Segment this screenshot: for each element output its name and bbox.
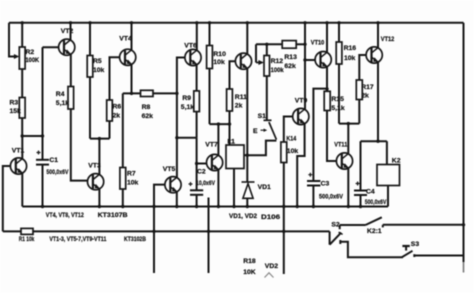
wire R12 bottom to S1 (266, 76, 268, 120)
svg-text:R18: R18 (243, 258, 256, 265)
resistor R9 5,1k (194, 91, 200, 112)
svg-text:500,0x6V: 500,0x6V (46, 169, 68, 176)
svg-text:2k: 2k (235, 103, 243, 110)
capacitor C1 plus (37, 151, 41, 155)
wire VT6 base vertical long (177, 58, 185, 138)
wire throw2 step to S3 (340, 242, 403, 257)
wire VT6 collector up (196, 23, 198, 51)
svg-text:VT6: VT6 (184, 43, 197, 50)
wire bottom rail A (22, 206, 388, 208)
svg-text:R17: R17 (361, 84, 374, 91)
svg-text:K2:1: K2:1 (367, 228, 382, 235)
svg-text:K2: K2 (392, 158, 401, 165)
junction dots vertical305 (303, 43, 306, 46)
svg-text:5,1k: 5,1k (331, 105, 344, 112)
svg-text:KT3102B: KT3102B (124, 236, 146, 243)
svg-text:VT10: VT10 (311, 40, 325, 47)
resistor R16 10k (336, 42, 342, 64)
svg-text:D106: D106 (261, 214, 280, 221)
svg-text:VT9: VT9 (295, 98, 308, 105)
svg-text:2k: 2k (113, 112, 121, 119)
svg-text:KT3107B: KT3107B (98, 212, 128, 219)
wire S1 bottom staircase (247, 141, 276, 156)
svg-text:R10: R10 (213, 51, 226, 58)
svg-text:k1: k1 (227, 139, 235, 146)
capacitor C2 plus (189, 182, 193, 186)
svg-text:S2: S2 (331, 222, 340, 229)
junction dot right rail K21 (462, 223, 465, 226)
wire K21 to right rail (383, 224, 464, 226)
wire VT6 emitter to R9 (196, 65, 198, 91)
svg-text:R4: R4 (56, 91, 65, 98)
wire R7 top lead (122, 93, 124, 167)
resistor R17 2k (356, 80, 362, 100)
junction dots node136 (21, 134, 24, 137)
wire throw1 to K21 lever (340, 224, 366, 226)
transistor VT8 unlabeled (235, 53, 251, 69)
wire bottom rail B left (3, 230, 21, 232)
resistor R10 10k (207, 46, 213, 69)
wire node138 horizontal (90, 138, 110, 140)
svg-text:R3: R3 (10, 100, 19, 107)
svg-text:E: E (253, 128, 258, 135)
wire K1 top lead (229, 124, 231, 145)
wire S3 to right rail (414, 255, 463, 257)
wire VT12 base to R17 (359, 55, 366, 80)
wire VT12 collector up (377, 23, 379, 48)
capacitor C4 plus (356, 182, 360, 186)
wire VT10 collector up (326, 23, 328, 53)
relay K2 coil box (377, 165, 400, 186)
wire bottom rail B main (33, 230, 330, 232)
svg-text:R6: R6 (113, 104, 122, 111)
svg-text:VT3: VT3 (88, 163, 101, 170)
wire node44 horizontal to R13 (256, 43, 282, 45)
wire VT8 base to R11 top (230, 61, 236, 89)
wire S3 plunger cap (402, 245, 409, 247)
wire R2 to R3 (21, 69, 23, 98)
wire R15 bottom to VT11 base (327, 111, 337, 162)
wire VT12 emitter down (377, 62, 379, 141)
wire node123 horizontal (339, 123, 359, 125)
wire R6 bottom (109, 121, 111, 139)
wire VT5 top lead (176, 138, 178, 178)
resistor R1 10k horizontal in rail (21, 228, 33, 234)
resistor R4 5,1k (68, 87, 74, 110)
junction dot R15 C3 tap (325, 87, 328, 90)
svg-text:62k: 62k (284, 63, 296, 70)
wire VT1 collector (21, 136, 23, 159)
wire VT4 base to R6 top (110, 57, 120, 100)
capacitor C4 plates (354, 191, 367, 196)
svg-text:15k: 15k (10, 108, 22, 115)
wire stub below rails mid (208, 198, 210, 274)
junction dot C2 tap (195, 162, 198, 165)
wire VD1 bottom to rail (246, 198, 248, 206)
wire S2 lever (330, 233, 342, 245)
svg-text:10k: 10k (213, 59, 225, 66)
wire VT11 collector up (347, 124, 349, 155)
wire R5 top (89, 23, 91, 56)
resistor R11 2k (227, 89, 233, 111)
wire R16 top (338, 23, 340, 42)
wire VT7 base horizontal (197, 163, 208, 165)
svg-text:R2: R2 (26, 49, 35, 56)
wire VT2 base vertical down through node to C1 (42, 47, 44, 160)
junction dots top rail (21, 21, 24, 24)
svg-text:10K: 10K (243, 269, 256, 276)
wire down to VT7 base level (196, 138, 198, 164)
switch S1 actuate arrow E (261, 129, 265, 131)
transistor VT12 (366, 47, 382, 63)
potentiometer R12 wiper arrow wire (256, 62, 259, 64)
potentiometer R12 wiper arrow (258, 60, 264, 65)
wire VT5 base to rail stub down (154, 185, 165, 273)
svg-text:10k: 10k (344, 55, 356, 62)
wire node136 horizontal (22, 135, 42, 137)
wire node141 horizontal (361, 140, 387, 142)
wire S3 plunger stem (405, 246, 407, 250)
svg-text:VD1, VD2: VD1, VD2 (229, 213, 257, 220)
wire VT8 collector up (246, 23, 248, 54)
wire K2 bottom lead (387, 186, 389, 207)
transistor VT3 (88, 174, 104, 190)
svg-text:R13: R13 (284, 54, 297, 61)
wire VT4 collector up (131, 23, 133, 51)
svg-text:10k: 10k (127, 180, 139, 187)
svg-text:VT2: VT2 (61, 28, 74, 35)
svg-text:VD2: VD2 (265, 263, 278, 270)
svg-text:K14: K14 (286, 136, 296, 143)
relay K1 coil box (226, 145, 244, 169)
resistor R7 10k (120, 168, 126, 190)
svg-text:VT4, VT8, VT12: VT4, VT8, VT12 (46, 212, 84, 219)
diode VD2 faded symbol (265, 273, 274, 278)
svg-text:2k: 2k (361, 92, 369, 99)
svg-text:R15: R15 (331, 96, 344, 103)
transistor VT4 (120, 49, 136, 65)
svg-text:R7: R7 (127, 170, 136, 177)
wire R12 wiper riser (255, 44, 257, 62)
capacitor C2 plates (190, 190, 203, 195)
svg-text:5,1k: 5,1k (181, 104, 194, 111)
wire R3 bottom to node (21, 118, 23, 136)
svg-text:VT12: VT12 (381, 36, 395, 43)
wire VT9 base to K14 (284, 117, 293, 143)
switch S1 fixed contact tick (264, 119, 272, 121)
wire VT2 base horizontal (43, 46, 59, 48)
junction dot S1 K1 tap (246, 154, 249, 157)
svg-text:VT11: VT11 (334, 142, 347, 149)
wire C2 bottom lead (196, 195, 198, 207)
svg-text:R11: R11 (235, 94, 247, 101)
transistor VT1 (10, 158, 26, 174)
svg-text:R12: R12 (271, 58, 284, 65)
wire VT1 base to left rail (3, 166, 10, 231)
svg-text:500,0x6V: 500,0x6V (319, 194, 343, 201)
svg-text:VT1: VT1 (12, 148, 25, 155)
svg-text:5,1k: 5,1k (56, 100, 69, 107)
switch S1 lever (269, 122, 277, 140)
svg-text:C1: C1 (49, 157, 58, 164)
wire R17 bottom (358, 100, 360, 124)
svg-text:VT7: VT7 (205, 142, 218, 149)
wire right vertical faded tail (463, 262, 465, 273)
resistor R5 10k (87, 56, 93, 78)
wire R9 bottom (196, 112, 198, 138)
wire R10 bottom (209, 69, 211, 125)
svg-text:R5: R5 (93, 58, 102, 65)
capacitor C3 plates (307, 181, 320, 186)
svg-text:62k: 62k (142, 113, 154, 120)
wire vertical 305 rail to VT9 (304, 23, 306, 110)
svg-text:VD1: VD1 (258, 184, 271, 191)
wire R11 bottom (229, 111, 231, 124)
junction dots rail A (41, 205, 44, 208)
junction dots node93 (130, 92, 133, 95)
resistor R6 2k (107, 100, 113, 121)
wire S2 throw1 tick (339, 225, 341, 229)
svg-text:500,0x6V: 500,0x6V (365, 199, 387, 206)
wire K1 right tap (244, 154, 247, 156)
resistor R12 100k potentiometer body (264, 56, 270, 77)
capacitor C3 plus (308, 173, 312, 177)
wire VT8 emitter long down to VD1 (246, 68, 248, 182)
wire VT7 collector up (217, 124, 219, 155)
transistor VT2 (59, 39, 75, 55)
wire R10 top (209, 23, 211, 46)
wire VT10 emitter to R15 (326, 67, 328, 92)
wire K21 contact tick (382, 225, 384, 228)
transistor VT6 (185, 49, 201, 65)
svg-text:R8: R8 (142, 104, 151, 111)
junction dot node44 R12 (265, 43, 268, 46)
wire S3 contact tick (413, 254, 415, 257)
wire C3 bottom (312, 186, 314, 207)
transistor VT9 (293, 108, 309, 124)
wire S2 throw2 tick (339, 240, 341, 244)
resistor R8 62k horizontal (141, 90, 154, 96)
wire VT5 emitter (176, 192, 178, 207)
svg-text:R9: R9 (182, 95, 191, 102)
wire R12 top lead (266, 44, 268, 55)
transistor VT5 (165, 177, 181, 193)
wire node93 horizontal right part (153, 92, 177, 94)
wire node137 horizontal (177, 137, 197, 139)
wire K21 lever (366, 217, 382, 225)
junction dots node137 (175, 136, 178, 139)
wire R5 bottom (89, 77, 91, 139)
wire right edge vertical (463, 23, 465, 262)
wire S2 common drop (329, 231, 331, 244)
wire VT3 emitter (98, 189, 100, 207)
wire K2 top lead (386, 141, 388, 164)
capacitor C1 plates (36, 160, 49, 165)
wire VT2 collector up (70, 23, 72, 41)
svg-text:100K: 100K (26, 57, 40, 64)
wire R13 right to V305 (296, 43, 305, 45)
svg-text:C3: C3 (321, 181, 330, 188)
wire node93 horizontal left part (123, 92, 141, 94)
wire R4 bottom to VT3 base (71, 109, 88, 181)
wire VT10 base (305, 59, 315, 61)
resistor R13 62k horizontal (282, 41, 296, 49)
transistor VT10 (315, 52, 331, 68)
svg-text:C4: C4 (366, 189, 375, 196)
svg-text:10,0x6V: 10,0x6V (196, 180, 215, 187)
junction dots node124 (217, 122, 220, 125)
wire R16 bottom (338, 64, 340, 124)
wire VT11 emitter (347, 168, 349, 207)
wire C2 top lead (196, 164, 198, 191)
potentiometer R2 wiper arrow (14, 54, 19, 59)
wire R7 bottom lead (122, 189, 124, 207)
resistor R3 15k (19, 98, 25, 119)
wire VT9 emitter jog (297, 124, 304, 207)
wire S2 lever tip tick (339, 232, 343, 234)
junction dot node123 (347, 122, 350, 125)
wire VT3 collector up (98, 139, 100, 175)
wire S3 lever (402, 251, 413, 257)
svg-text:VT5: VT5 (163, 166, 176, 173)
wire C4 bottom (360, 195, 362, 207)
wire VT1 emitter (21, 173, 23, 206)
svg-text:R1 10k: R1 10k (19, 236, 35, 243)
junction dots node138 (98, 137, 101, 140)
svg-text:100k: 100k (271, 67, 284, 74)
transistor VT11 (336, 153, 352, 169)
svg-text:R16: R16 (344, 45, 357, 52)
svg-text:S1: S1 (258, 113, 267, 120)
transistor VT7 (207, 154, 223, 170)
wire R2 top lead (21, 23, 23, 47)
junction dots rail B (152, 230, 155, 233)
wire K1 bottom lead (233, 169, 235, 207)
svg-text:10k: 10k (287, 148, 299, 155)
wire node124 horizontal (210, 123, 230, 125)
diode VD1 (242, 182, 255, 198)
wire left drop to R2 wiper (9, 23, 17, 57)
wire K14 bottom long with stubs (283, 163, 285, 275)
svg-text:VT1-3, VT5-7,VT9-VT11: VT1-3, VT5-7,VT9-VT11 (49, 236, 106, 243)
wire C1 bottom lead (42, 165, 44, 207)
wire VT2 emitter down to R4 (70, 54, 72, 86)
wire VT7 emitter (217, 170, 219, 207)
wire C4 top lead (360, 141, 362, 190)
resistor R15 5,1k (324, 91, 330, 110)
resistor R2 100K potentiometer body (19, 47, 25, 69)
wire VT4 emitter down (131, 64, 133, 93)
svg-text:10k: 10k (93, 67, 105, 74)
wire top supply rail (9, 22, 464, 24)
resistor K14 10k (281, 142, 287, 163)
wire C3 top lead up to R15 node (313, 89, 327, 181)
svg-text:VT4: VT4 (119, 36, 132, 43)
svg-text:S3: S3 (411, 241, 420, 248)
svg-text:C2: C2 (197, 169, 206, 176)
junction dot node141 (376, 140, 379, 143)
